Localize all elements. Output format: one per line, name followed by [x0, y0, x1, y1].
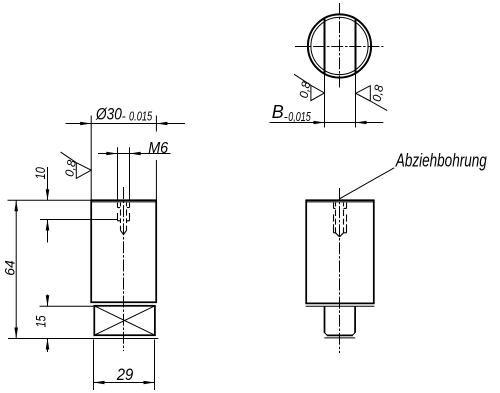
svg-text:0,015: 0,015 — [288, 110, 311, 124]
svg-text:0.015: 0.015 — [129, 110, 152, 124]
svg-text:0,8: 0,8 — [62, 159, 79, 178]
svg-text:-: - — [122, 110, 126, 124]
svg-text:M6: M6 — [148, 140, 168, 157]
svg-text:-: - — [284, 110, 288, 124]
svg-text:0,8: 0,8 — [297, 80, 314, 99]
svg-text:15: 15 — [33, 315, 48, 327]
svg-text:B: B — [272, 102, 284, 122]
svg-text:29: 29 — [116, 365, 134, 384]
svg-text:10: 10 — [33, 167, 48, 180]
svg-text:64: 64 — [3, 260, 18, 276]
svg-text:Abziehbohrung: Abziehbohrung — [395, 151, 487, 171]
svg-text:0,8: 0,8 — [370, 84, 387, 103]
svg-text:Ø30: Ø30 — [95, 105, 122, 124]
